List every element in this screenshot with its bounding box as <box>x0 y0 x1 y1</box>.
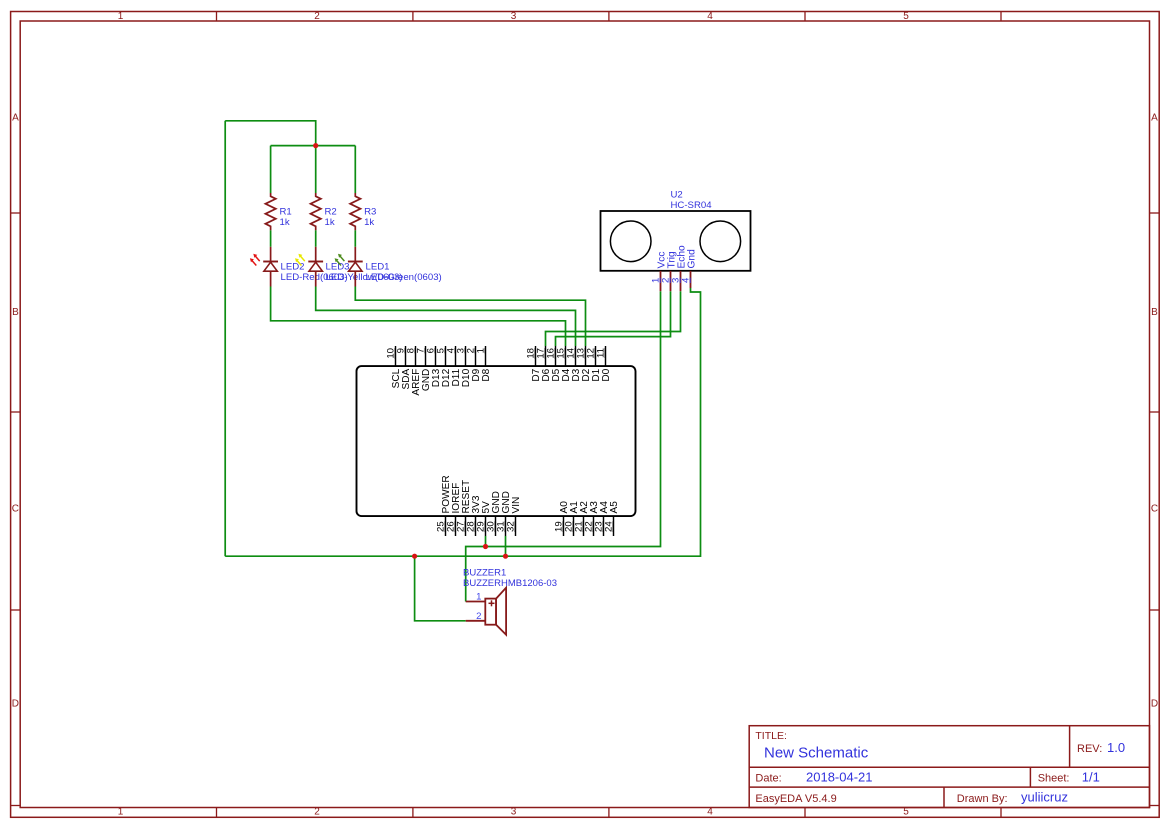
pin 14 D3 <box>566 346 582 382</box>
wire left vertical GND net <box>224 121 226 556</box>
pin 8 AREF <box>406 346 422 396</box>
pin 11 D0 <box>596 346 612 382</box>
svg-text:4: 4 <box>707 11 713 22</box>
wire LED1 to D2 <box>355 287 585 347</box>
LED LED3 <box>295 247 402 287</box>
pin 19 A0 <box>554 501 570 536</box>
wire R2 top <box>315 146 317 193</box>
wire LED3 to D3 <box>316 287 576 347</box>
resistor R3 <box>350 193 376 230</box>
svg-text:1: 1 <box>118 807 124 818</box>
pin 1 D8 <box>476 346 492 382</box>
wire GND pin stub <box>505 536 507 556</box>
svg-text:B: B <box>1151 307 1158 318</box>
svg-text:U2: U2 <box>671 190 683 201</box>
U2 pin 1 Vcc <box>651 252 668 292</box>
svg-text:BUZZERHMB1206-03: BUZZERHMB1206-03 <box>463 578 557 589</box>
wire resistor top bus <box>271 145 356 147</box>
svg-text:11: 11 <box>596 348 607 358</box>
wire R3-LED1 link <box>354 230 356 247</box>
svg-text:24: 24 <box>604 521 615 532</box>
svg-text:REV:: REV: <box>1077 743 1102 755</box>
svg-text:D: D <box>1151 698 1158 709</box>
pin 2 D9 <box>466 346 482 382</box>
pin 28 3V3 <box>466 495 482 536</box>
buzzer BUZZER1 symbol <box>466 588 506 635</box>
wire Vcc to 5V rail <box>466 291 661 601</box>
wire D6 to Echo <box>546 291 681 346</box>
svg-text:2: 2 <box>476 611 481 622</box>
pin 27 RESET <box>456 480 472 536</box>
pin 7 GND <box>416 346 432 391</box>
U2 pin 3 Echo <box>671 245 688 291</box>
pin 20 A1 <box>564 501 580 536</box>
U2 pin 2 Trig <box>661 251 678 291</box>
pin 32 VIN <box>506 497 522 536</box>
svg-text:3: 3 <box>511 11 517 22</box>
pin 30 GND <box>486 491 502 536</box>
IC U1 body (Arduino) <box>357 366 636 516</box>
svg-text:D0: D0 <box>601 368 612 381</box>
svg-text:A: A <box>1151 113 1158 124</box>
svg-text:1/1: 1/1 <box>1082 770 1100 785</box>
pin 21 A2 <box>574 501 590 536</box>
svg-text:Gnd: Gnd <box>687 249 698 269</box>
svg-text:C: C <box>1151 504 1158 515</box>
svg-text:4: 4 <box>707 807 713 818</box>
pin 17 D6 <box>536 346 552 382</box>
LED LED1 <box>335 247 442 287</box>
wire GND rail to buzzer pin 2 <box>415 556 466 621</box>
svg-text:1: 1 <box>118 11 124 22</box>
pin 25 POWER <box>436 475 452 536</box>
wire R1-LED2 link <box>270 230 272 247</box>
svg-text:R3: R3 <box>364 206 376 217</box>
svg-text:LED-Green(0603): LED-Green(0603) <box>366 272 442 283</box>
pin 10 SCL <box>386 346 402 388</box>
resistor R2 <box>311 193 337 230</box>
svg-text:1.0: 1.0 <box>1107 740 1125 755</box>
node junction GND rail at pin 31 <box>503 554 508 559</box>
node junction 5V rail <box>483 544 488 549</box>
svg-text:1k: 1k <box>280 217 290 228</box>
U2 pin 4 Gnd <box>681 249 698 288</box>
svg-text:D8: D8 <box>481 368 492 381</box>
svg-text:Date:: Date: <box>755 773 781 785</box>
node junction GND rail buzzer tap <box>412 554 417 559</box>
pin 9 SDA <box>396 346 412 389</box>
wire D5 to Trig <box>556 291 671 346</box>
svg-text:C: C <box>12 504 19 515</box>
svg-text:B: B <box>12 307 19 318</box>
pin 15 D4 <box>556 346 572 382</box>
wire 5V pin stub <box>485 536 487 547</box>
svg-text:3: 3 <box>511 807 517 818</box>
pin 13 D2 <box>576 346 592 382</box>
svg-text:Sheet:: Sheet: <box>1038 773 1070 785</box>
sensor U2 HC-SR04 body <box>601 211 751 271</box>
pin 4 D11 <box>446 346 462 386</box>
svg-text:A: A <box>12 113 19 124</box>
pin 5 D12 <box>436 346 452 387</box>
svg-text:LED3: LED3 <box>326 262 350 273</box>
svg-text:1: 1 <box>476 591 481 602</box>
pin 29 5V <box>476 501 492 536</box>
wire R1 top <box>270 146 272 193</box>
LED LED2 <box>250 247 348 287</box>
pin 6 D13 <box>426 346 442 387</box>
svg-text:2: 2 <box>314 11 320 22</box>
svg-text:R1: R1 <box>280 206 292 217</box>
svg-text:1: 1 <box>476 348 487 353</box>
svg-text:5: 5 <box>903 11 909 22</box>
svg-text:1k: 1k <box>364 217 374 228</box>
svg-text:BUZZER1: BUZZER1 <box>463 568 506 579</box>
svg-text:New Schematic: New Schematic <box>764 745 869 762</box>
svg-text:EasyEDA V5.4.9: EasyEDA V5.4.9 <box>755 793 836 805</box>
wire GND rail <box>225 288 700 556</box>
svg-text:R2: R2 <box>325 206 337 217</box>
svg-text:Drawn By:: Drawn By: <box>957 793 1008 805</box>
svg-text:A5: A5 <box>609 501 620 514</box>
wire R3 top <box>354 146 356 193</box>
pin 18 D7 <box>526 346 542 382</box>
svg-text:TITLE:: TITLE: <box>755 730 787 742</box>
svg-text:2018-04-21: 2018-04-21 <box>806 770 873 785</box>
pin 24 A5 <box>604 501 620 536</box>
node junction R2 top <box>313 143 318 148</box>
svg-text:HC-SR04: HC-SR04 <box>671 200 713 211</box>
svg-text:4: 4 <box>681 277 692 283</box>
resistor R1 <box>265 193 291 230</box>
pin 23 A4 <box>594 501 610 536</box>
wire top feed horizontal <box>225 121 316 146</box>
wire R2-LED3 link <box>315 230 317 247</box>
wire LED2 to D4 <box>271 287 566 347</box>
pin 31 GND <box>496 491 512 536</box>
svg-text:LED1: LED1 <box>366 262 390 273</box>
svg-text:LED2: LED2 <box>281 262 305 273</box>
pin 16 D5 <box>546 346 562 382</box>
svg-text:VIN: VIN <box>511 497 522 514</box>
svg-text:2: 2 <box>314 807 320 818</box>
svg-text:1k: 1k <box>325 217 335 228</box>
pin 3 D10 <box>456 346 472 387</box>
svg-text:D: D <box>12 698 19 709</box>
svg-text:32: 32 <box>506 521 517 532</box>
pin 26 IOREF <box>446 483 462 536</box>
pin 12 D1 <box>586 346 602 382</box>
svg-text:yuliicruz: yuliicruz <box>1021 790 1068 805</box>
pin 22 A3 <box>584 501 600 536</box>
